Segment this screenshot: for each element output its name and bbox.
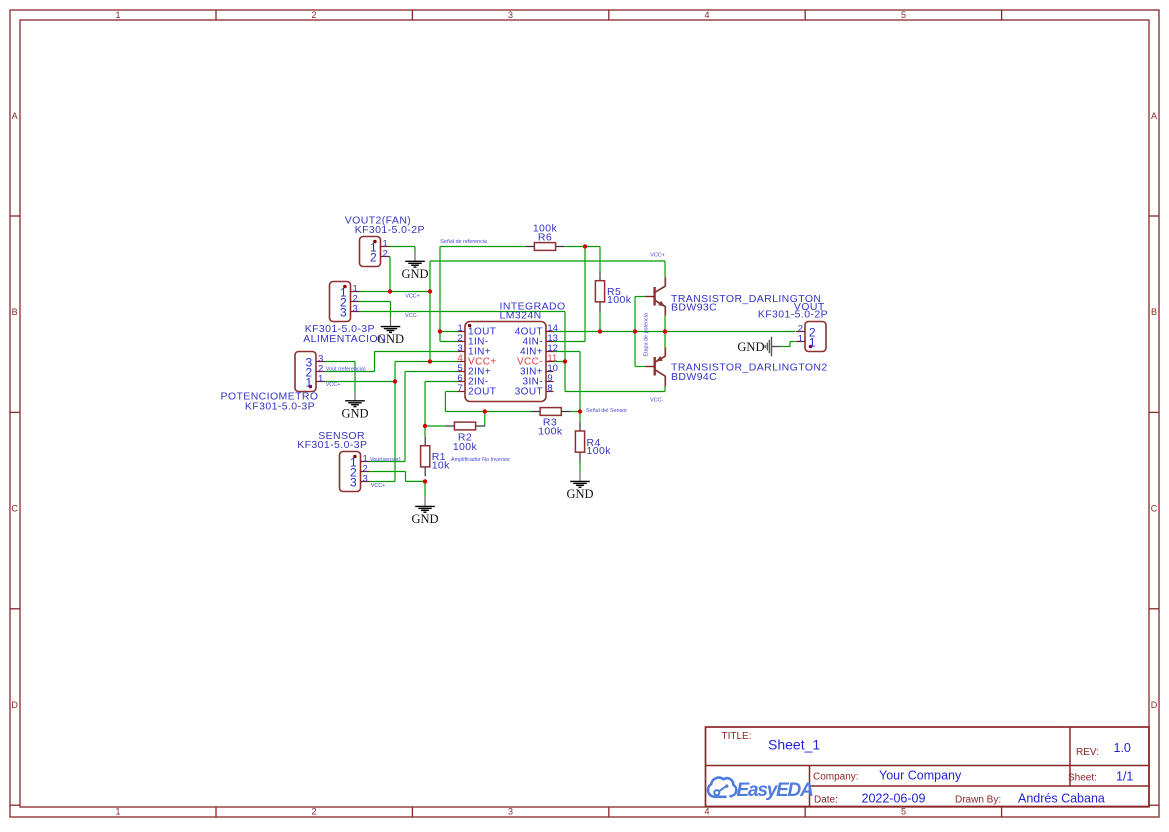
- svg-text:VCC+: VCC+: [650, 252, 665, 258]
- wire: ALIMENTACION pin2 to GND: [359, 302, 391, 317]
- svg-text:7: 7: [458, 383, 463, 394]
- junction at 600,331.5: [598, 329, 602, 333]
- svg-text:KF301-5.0-3P: KF301-5.0-3P: [297, 439, 367, 451]
- svg-text:1: 1: [115, 10, 120, 20]
- svg-text:VCC+: VCC+: [326, 382, 341, 388]
- svg-text:2: 2: [370, 250, 377, 264]
- svg-text:1: 1: [798, 334, 803, 345]
- ground (R4): [566, 472, 593, 501]
- svg-text:4: 4: [704, 10, 709, 20]
- svg-text:3: 3: [508, 10, 513, 20]
- wire: POTENCIOMETRO wiper to 1IN+: [325, 352, 458, 372]
- svg-text:1: 1: [318, 374, 323, 385]
- svg-text:Drawn By:: Drawn By:: [955, 795, 1001, 806]
- svg-text:A: A: [12, 111, 18, 121]
- EasyEDA logo: [708, 778, 813, 801]
- svg-text:ALIMENTACION: ALIMENTACION: [303, 333, 386, 345]
- svg-text:3: 3: [363, 474, 368, 485]
- svg-text:100k: 100k: [538, 426, 563, 438]
- wire: SENSOR pin2 to GND junction: [370, 472, 426, 497]
- svg-text:Señal de referencia: Señal de referencia: [440, 239, 487, 245]
- wire: VCC- rail (ALIMENTACION pin3 to pin11 and Q2 collector): [359, 312, 665, 392]
- svg-text:KF301-5.0-3P: KF301-5.0-3P: [245, 400, 315, 412]
- svg-text:VCC-: VCC-: [405, 313, 418, 319]
- ground (ALIMENTACION pin2): [377, 317, 404, 346]
- svg-text:3OUT: 3OUT: [515, 387, 543, 398]
- resistor R1 10k: [421, 436, 451, 476]
- wire: Q1 emitter / Q2 emitter to output node: [664, 315, 666, 347]
- op-amp U1 INTEGRADO LM324N: [458, 301, 566, 402]
- junction at 665,331.5: [663, 329, 667, 333]
- wire: POTENCIOMETRO pin3 to GND: [325, 362, 355, 392]
- svg-text:Vout(sensor): Vout(sensor): [370, 457, 401, 463]
- svg-text:3: 3: [353, 304, 358, 315]
- resistor R3 100k: [531, 408, 571, 438]
- svg-text:Amplificador No Inversor: Amplificador No Inversor: [451, 457, 510, 463]
- wire: output row 4OUT to VOUT: [554, 311, 796, 332]
- svg-text:100k: 100k: [587, 445, 612, 457]
- junction at 580,411.5: [578, 409, 582, 413]
- junction at 484.8,411.5: [483, 409, 487, 413]
- wire: 2IN- node to R1/R2 junction: [425, 382, 458, 437]
- transistor Q2 TRANSISTOR_DARLINGTON2 BDW94C: [645, 347, 827, 386]
- wire: 2OUT feedback row: [445, 392, 530, 427]
- svg-text:3: 3: [340, 305, 347, 319]
- svg-text:3: 3: [350, 475, 357, 489]
- wire: R6 right to 4IN- (pin13) and R5 top: [554, 247, 601, 342]
- junction at 425,481.4: [423, 479, 427, 483]
- svg-text:Date:: Date:: [814, 795, 838, 806]
- svg-text:Company:: Company:: [813, 772, 859, 783]
- svg-text:4: 4: [704, 806, 709, 816]
- wire: Senal del Sensor node to 4IN+ and R4: [554, 352, 581, 472]
- svg-text:Vout (referencia): Vout (referencia): [326, 366, 366, 372]
- connector ALIMENTACION KF301-5.0-3P: [303, 282, 386, 346]
- svg-text:1: 1: [305, 375, 312, 389]
- svg-text:GND: GND: [566, 487, 593, 501]
- svg-text:Andrés Cabana: Andrés Cabana: [1018, 792, 1105, 806]
- wire: SENSOR pin1 to 2IN+: [370, 372, 459, 462]
- svg-text:2022-06-09: 2022-06-09: [862, 791, 926, 805]
- svg-text:TITLE:: TITLE:: [722, 731, 752, 742]
- svg-text:100k: 100k: [607, 294, 632, 306]
- connector POTENCIOMETRO KF301-5.0-3P: [221, 352, 325, 413]
- svg-text:EasyEDA: EasyEDA: [737, 780, 814, 801]
- junction at 430,291.5: [428, 289, 432, 293]
- title block texts: [722, 731, 1134, 806]
- junction at 585,246.5: [583, 244, 587, 248]
- svg-text:KF301-5.0-2P: KF301-5.0-2P: [355, 224, 425, 236]
- svg-text:VCC+: VCC+: [405, 293, 420, 299]
- svg-text:2: 2: [383, 249, 388, 260]
- junction at 440,331.5: [438, 329, 442, 333]
- svg-text:C: C: [11, 504, 18, 514]
- svg-text:1: 1: [809, 335, 816, 349]
- junction at 425,426: [423, 424, 427, 428]
- connector CN VOUT2(FAN) KF301-5.0-2P: [345, 215, 425, 267]
- svg-text:GND: GND: [401, 267, 428, 281]
- ground (VOUT2 pin1): [401, 252, 428, 281]
- svg-text:GND: GND: [341, 406, 368, 420]
- svg-text:A: A: [1151, 111, 1157, 121]
- svg-text:LM324N: LM324N: [500, 310, 542, 322]
- svg-text:VCC+: VCC+: [371, 483, 386, 489]
- wire: transistor bases to output net: [635, 297, 645, 367]
- svg-text:3: 3: [508, 806, 513, 816]
- svg-text:R6: R6: [538, 232, 552, 244]
- title block: [706, 727, 1150, 807]
- connector SENSOR KF301-5.0-3P: [297, 430, 369, 491]
- svg-text:Your Company: Your Company: [879, 769, 962, 783]
- svg-text:Señal del Sensor: Señal del Sensor: [586, 408, 627, 414]
- svg-text:Sheet_1: Sheet_1: [768, 737, 820, 753]
- junction at 635,331.5: [633, 329, 637, 333]
- resistor R6 100k: [525, 223, 565, 251]
- ground (VOUT pin1, rotated): [737, 337, 780, 357]
- junction at 565,361.5: [563, 359, 567, 363]
- svg-text:1.0: 1.0: [1114, 741, 1131, 755]
- resistor R5 100k: [595, 271, 631, 311]
- ground (SENSOR pin2 / R1): [411, 497, 438, 526]
- svg-text:2: 2: [311, 10, 316, 20]
- svg-text:BDW93C: BDW93C: [671, 301, 717, 313]
- svg-text:1/1: 1/1: [1116, 769, 1133, 783]
- svg-text:GND: GND: [737, 340, 764, 354]
- svg-text:GND: GND: [411, 512, 438, 526]
- svg-text:D: D: [1151, 700, 1158, 710]
- svg-text:B: B: [1151, 307, 1157, 317]
- transistor Q1 TRANSISTOR_DARLINGTON BDW93C: [645, 277, 821, 315]
- svg-text:BDW94C: BDW94C: [671, 371, 717, 383]
- svg-text:C: C: [1151, 504, 1158, 514]
- junction at 390,291.5: [388, 289, 392, 293]
- svg-text:5: 5: [901, 10, 906, 20]
- wire: Senal de referencia net (1OUT to R6 and down to pins 1,2): [440, 247, 525, 342]
- svg-text:2OUT: 2OUT: [468, 387, 496, 398]
- wire: VCC+ rail: [325, 257, 665, 482]
- junction at 395,381.5: [393, 379, 397, 383]
- wire: VOUT2 pin1 to GND: [390, 246, 416, 248]
- svg-text:5: 5: [901, 806, 906, 816]
- svg-text:2: 2: [311, 806, 316, 816]
- wire: VOUT pin1 to GND flag: [780, 342, 796, 347]
- svg-text:B: B: [12, 307, 18, 317]
- ground (POTENCIOMETRO pin3): [341, 391, 368, 420]
- svg-text:1: 1: [115, 806, 120, 816]
- svg-text:VCC-: VCC-: [650, 398, 663, 404]
- junction at 430,361.5: [428, 359, 432, 363]
- svg-text:KF301-5.0-2P: KF301-5.0-2P: [758, 309, 828, 321]
- svg-text:REV:: REV:: [1076, 747, 1099, 758]
- svg-text:D: D: [11, 700, 18, 710]
- svg-text:10k: 10k: [432, 460, 450, 472]
- resistor R2 100k: [445, 422, 485, 453]
- connector VOUT KF301-5.0-2P: [758, 301, 828, 352]
- resistor R4 100k: [575, 422, 611, 462]
- svg-text:100k: 100k: [453, 441, 478, 453]
- svg-text:Sheet:: Sheet:: [1068, 773, 1097, 784]
- svg-text:Etapa de potencia: Etapa de potencia: [644, 313, 650, 356]
- svg-text:8: 8: [547, 383, 552, 394]
